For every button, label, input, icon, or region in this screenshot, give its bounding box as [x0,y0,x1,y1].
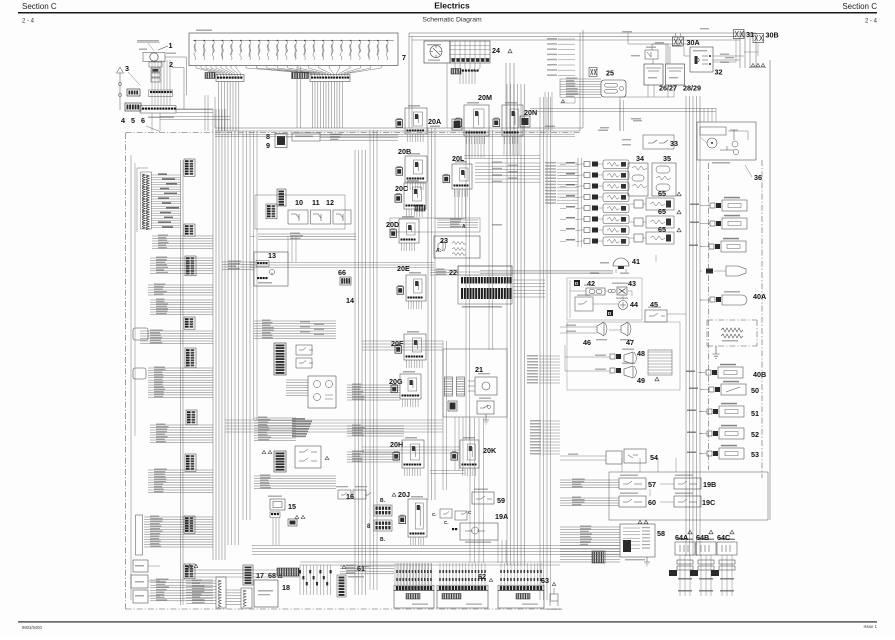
right label column 530 lower [530,420,560,455]
mid tall connector 344 [274,343,286,375]
connector 20N right [520,116,530,127]
svg-text:20E: 20E [397,264,410,273]
relay 20K drops [463,468,476,476]
relay 20H [393,440,424,468]
glow plug ground [713,346,720,358]
connector column tall b [241,588,252,608]
svg-text:62: 62 [478,572,486,581]
connector 30B [753,34,764,43]
thermo switch [689,238,746,252]
left tall box 516 [136,515,143,555]
left dark connector block 566 [184,564,195,579]
svg-text:40B: 40B [753,370,766,379]
16 connector grids [374,505,392,531]
solenoid 64B [690,539,716,597]
svg-text:20A: 20A [428,117,441,126]
bank body [394,591,434,609]
bank connector row [394,585,434,590]
throttle ground [644,557,650,566]
svg-text:13: 13 [268,251,276,260]
svg-text:20F: 20F [391,339,404,348]
triangles near 18 [188,564,198,567]
svg-text:Electrics: Electrics [434,1,470,11]
svg-text:12: 12 [326,198,334,207]
drops below 20M 20N [464,137,540,159]
svg-text:20K: 20K [483,446,497,455]
svg-text:4: 4 [121,116,125,125]
relay 20F [395,334,426,360]
gauge 34 [628,163,648,196]
relay 20H drops [405,468,421,476]
wire left drop 1 [151,113,153,131]
left bundle rows 258 [150,257,213,274]
bank text [522,604,538,605]
center bus cluster D [355,150,366,595]
relay 20J drops [411,537,424,545]
center bus F [428,128,435,500]
left bundle rows 580 [150,579,213,601]
switch 19A parts [432,509,472,520]
wire switch bus [172,68,184,110]
mid dark connector 452 [274,451,286,472]
column 65 links [629,204,646,238]
left bundle rows 236 [152,235,213,249]
cab boundary dash-dot top [126,132,581,134]
svg-text:Section C: Section C [842,2,877,11]
relay 20N drops [505,136,518,144]
verticals 545-585 top [545,92,624,131]
svg-text:B.: B. [380,498,386,504]
horn 46 [596,322,607,340]
mid triangles 450 [262,450,272,453]
connector block left of 10 [266,204,277,219]
left dark connector block 320 [184,317,195,329]
glow plug connector [706,266,746,276]
cab boundary dash-dot left [125,133,127,609]
relay 20A drops [408,134,424,142]
svg-text:20B: 20B [398,147,411,156]
harness note [148,117,174,119]
connector bank fan [439,563,486,585]
21 motor box [468,373,497,395]
relay 20J label [392,493,396,496]
wires 13 left [222,261,254,270]
fuse box 7 outline [189,33,398,66]
connector dark 25 [589,68,597,77]
relay 20D [390,219,419,243]
wires switch stack [152,60,170,105]
svg-text:Schematic Diagram: Schematic Diagram [422,17,482,24]
svg-text:14: 14 [346,296,354,305]
svg-text:5: 5 [131,116,135,125]
svg-text:65: 65 [658,189,666,198]
routing mid verticals near ignition [506,63,514,130]
mid bundle labels 322 [300,321,324,335]
battery box 28-29 [666,64,685,85]
relay 20J [399,499,427,537]
svg-text:48: 48 [637,349,645,358]
svg-text:24: 24 [492,46,500,55]
cab boundary dash-dot bottom [126,608,561,610]
triangle 24 [508,49,512,53]
oil filter switch [690,215,747,229]
connector 30A [673,33,684,46]
bottom fan verticals 565 [395,563,432,585]
center bus cluster E [370,130,377,590]
svg-text:A.: A. [436,248,442,254]
labels 10 11 12 [295,198,334,207]
hydraulic oil temp 51 [687,403,744,417]
aerial 3 [117,67,141,110]
svg-text:50: 50 [751,386,759,395]
svg-text:19C: 19C [702,498,715,507]
svg-text:64C: 64C [717,533,730,542]
bank text [466,604,482,605]
relay 20G [391,374,421,399]
long bus rows 341 [362,341,443,350]
routing rect upper [215,30,583,131]
mid vertical bus 489 [489,130,493,350]
component 54 [560,449,646,464]
left connector column chevrons [141,172,152,230]
left small boxes bottom [131,560,160,603]
wires 26-29 top [631,42,668,64]
dark block 66 [340,277,351,285]
connector 20N left [452,119,462,130]
bottom bundles left of banks [340,565,394,574]
warning lamp pair 65a [634,198,674,210]
top routing bus [409,33,756,128]
svg-text:35: 35 [663,154,671,163]
bank label block [442,594,461,600]
connector row lower wide [142,108,176,110]
wire 41 [456,272,629,274]
svg-text:58: 58 [657,529,665,538]
drops 19A region [498,540,506,563]
switch panel 22 connector row 1 [461,277,511,284]
svg-text:42: 42 [587,279,595,288]
svg-text:19A: 19A [495,512,508,521]
connector 15b [288,519,297,526]
svg-text:68: 68 [268,571,276,580]
bundle left labels 25 [559,79,561,97]
svg-text:21: 21 [475,365,483,374]
box frame 10-12 [255,195,345,229]
wires 22 left [430,269,458,276]
bank label block [406,594,420,600]
switch 15 [268,496,285,546]
hatch label block B [292,73,309,79]
bank text [412,604,428,605]
hatch block 68 [277,568,299,576]
bundle left of 20G [347,384,400,401]
routing labels upper [430,118,641,131]
mid bundle rows 320 [254,320,336,339]
wires 46 47 [560,325,621,334]
speaker block [125,103,141,111]
21 switch box [477,398,494,415]
svg-text:23: 23 [440,236,448,245]
fuel sensor 50 [689,381,746,395]
long bus rows 420 [225,420,443,432]
svg-text:28/29: 28/29 [683,84,701,93]
switch group 33 [622,135,674,149]
wire horn bus [165,57,187,95]
svg-text:9803/9400: 9803/9400 [22,625,42,630]
wires 8-9 right [320,134,398,141]
svg-text:20D: 20D [386,220,399,229]
warning lamp pair 65c [634,232,674,244]
svg-text:66: 66 [338,268,346,277]
21 ground [483,414,489,424]
21 connector strip 1 [445,377,453,396]
left bundle rows 517 [144,516,213,548]
fuse box 7 top label [196,30,212,32]
triangle 49 [655,377,659,381]
pilot box outer [609,472,768,520]
wires 23 upper [390,218,502,232]
triangle 64A [688,530,692,534]
svg-text:41: 41 [632,257,640,266]
switch 59 [472,489,494,505]
top right label column [547,38,575,76]
left dark connector block 350 [185,348,196,368]
right sensor feeds [700,206,702,454]
left bundle 1 frame [135,163,148,436]
hydraulic tank sender 52 [687,425,744,439]
svg-text:52: 52 [751,430,759,439]
wire stack bus [176,108,213,110]
21 dark block [448,401,457,411]
svg-text:20N: 20N [524,108,537,117]
horn unit 23 [434,236,480,258]
connector frame lower [140,106,176,114]
label 61 [342,564,369,573]
solenoid 64C [711,539,737,597]
upper left conduits [160,67,301,132]
svg-text:C.: C. [432,512,437,517]
triangle 64C [730,530,734,534]
svg-text:19B: 19B [703,480,716,489]
relay 20G drops [403,399,419,407]
isolation panel note [137,40,176,54]
hatch label block A [205,73,215,79]
vertical drop 13 to 22 [250,236,296,262]
bank body [498,591,544,609]
pilot switch 60 [619,493,646,508]
triangles 15 [295,515,305,518]
connector column tall a [216,577,226,608]
36 feeds [530,108,716,122]
relay 20B drops [408,182,424,190]
mid relay symbols 345 [296,345,313,368]
top right routing verticals [740,33,756,68]
switch panel 22 connector row 2 [461,288,511,299]
left bundle rows 368 [148,367,213,398]
relay 20L drops [455,189,468,197]
relay 12 symbol [333,210,351,224]
wires 48 49 left [565,345,592,371]
unit 13 [254,252,288,286]
switch 2 stack [149,62,162,82]
connector grid mid 46-49 [648,350,672,375]
svg-text:10: 10 [295,198,303,207]
mid hatch labels 418 [292,418,312,437]
mid bundle rows 452 [347,451,400,463]
boundary dash-dot right inner [761,160,763,478]
center bus cluster A [213,109,225,560]
wires 32 right [713,54,744,63]
svg-text:47: 47 [626,338,634,347]
triangles 59 [638,520,648,523]
switch 16 group [336,486,371,499]
svg-text:64A: 64A [675,533,688,542]
relay 20K [451,440,479,468]
svg-text:30B: 30B [766,31,779,40]
horn relay block 8-9 [275,133,320,148]
wire labels top right [622,28,734,58]
machine boundary right vertical [769,60,771,520]
labels 17 68 [256,571,282,580]
controller 18 [254,580,278,607]
svg-text:53: 53 [751,450,759,459]
pilot wires left [560,479,674,506]
left dark connector block 185-224 [184,224,195,236]
svg-text:46: 46 [583,338,591,347]
power socket 25 [601,80,626,97]
wires 20L to bus [435,190,466,219]
gauge 35 [652,163,676,196]
pilot switch 19B [674,475,701,490]
D mark 42 [574,280,580,286]
relay 20L [443,164,472,189]
long bus rows 447 [362,447,460,453]
relay 20C drops [407,209,423,217]
svg-text:44: 44 [630,300,638,309]
battery box 26-27 [644,64,663,85]
mid bundle rows 425b [347,425,404,437]
mid wires 380 [286,380,308,396]
61 connector strip [337,575,364,597]
headlamp 49 [592,363,637,379]
right inner dashdot [708,163,710,470]
relay 10 symbol [288,210,308,224]
left bundle rows 330 [140,330,213,344]
svg-text:20H: 20H [390,440,403,449]
svg-text:40A: 40A [753,292,766,301]
triangle 64B [709,530,713,534]
wiper relay 43 [608,283,632,297]
relay 20F drops [407,360,423,368]
right-center bus cluster H [540,97,551,600]
wiper unit 21 outer [443,349,507,417]
svg-text:9: 9 [266,141,270,150]
svg-text:43: 43 [628,279,636,288]
svg-text:1: 1 [169,41,173,50]
instrument lamp column [566,160,629,246]
drops 21 to banks [470,418,484,563]
bottom rows under 18 [186,570,300,577]
left rounded box 330 [133,328,148,340]
svg-text:17: 17 [256,571,264,580]
21 connector strip 2 [457,377,465,396]
connector bank fan [500,563,542,585]
right label column 544 upper [545,162,578,204]
air cleaner sensor 40A [700,291,747,305]
throttle wires left [560,526,620,564]
right label column 544 mid [527,355,560,384]
roll switch [575,295,593,312]
center bus cluster C [243,131,250,520]
horn 47 [620,322,631,340]
wires below 21 [430,417,465,474]
bank connector row [437,585,488,590]
wire 42 43 44 links [570,280,623,318]
svg-text:65: 65 [658,207,666,216]
center bundle rows 165 [475,161,540,182]
svg-text:20M: 20M [478,93,492,102]
mid vertical bus 466 [466,130,470,440]
ignition connector block [451,69,479,75]
flasher unit 42 [584,285,605,296]
svg-text:20G: 20G [389,377,403,386]
svg-text:25: 25 [606,69,614,78]
svg-text:Issue 1: Issue 1 [863,624,877,629]
left dark connector block 258 [185,256,196,276]
wire left drop 2 [159,113,161,131]
svg-text:3: 3 [125,64,129,73]
long bus rows 563 [300,562,560,565]
mid vertical bus 443 [443,341,447,490]
fuse component right of banks [546,588,562,610]
instrument lamp frame [578,158,582,247]
wire bundle 25 tail [560,97,575,103]
long bus rows 133 [215,134,575,136]
svg-text:63: 63 [541,576,549,585]
left dark connector block 517 [184,516,195,533]
fuse box fan to connector B [246,66,381,77]
pilot switch 57 [619,475,646,490]
connector strip B [310,75,350,82]
center bus cluster B [228,131,239,545]
mid box 446 [295,446,329,468]
triangle 65c [677,228,681,232]
triangle row right [749,63,766,67]
relay 20N [493,105,523,136]
connector frame upper [149,90,173,97]
relay 20D drops [402,243,415,251]
left bundle 1 wires [151,173,181,227]
svg-text:33: 33 [670,139,678,148]
lamp row feeds [560,164,580,241]
fan right of 18 [299,565,332,595]
connector strip A [216,75,244,82]
svg-text:32: 32 [715,68,723,77]
oil pressure switch [690,197,747,211]
wires to 18 [186,580,241,605]
svg-text:54: 54 [650,453,658,462]
relay 20M drops [467,136,485,144]
engine oil temp sender 40B [686,364,743,378]
svg-text:34: 34 [636,154,644,163]
ignition table 24 [450,41,490,63]
connector bank fan [396,563,432,585]
svg-text:20J: 20J [398,490,410,499]
switch panel 22 frame [458,266,512,308]
triangle 65a [677,192,681,196]
connector tall 10 [277,189,286,206]
far right bus cluster [686,96,700,556]
